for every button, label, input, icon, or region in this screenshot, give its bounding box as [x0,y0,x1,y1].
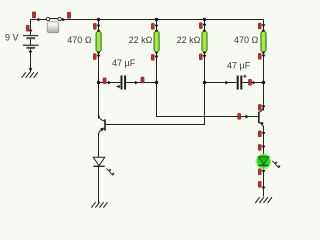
svg-text:22 kΩ: 22 kΩ [129,35,153,45]
svg-text:22 kΩ: 22 kΩ [177,35,201,45]
svg-text:47 µF: 47 µF [112,58,136,68]
svg-text:9 V: 9 V [5,33,19,43]
svg-text:470 Ω: 470 Ω [67,35,92,45]
svg-text:470 Ω: 470 Ω [234,35,259,45]
svg-text:47 µF: 47 µF [227,60,251,70]
